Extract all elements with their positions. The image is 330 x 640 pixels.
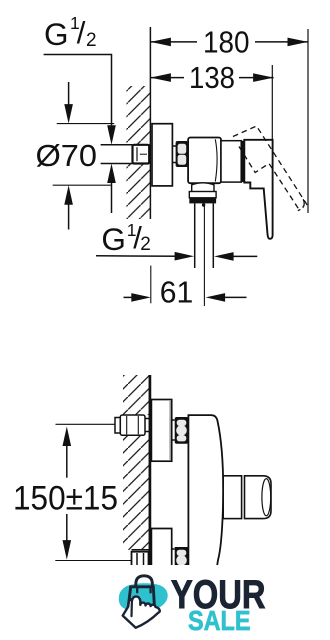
svg-text:G: G <box>44 16 69 52</box>
svg-text:61: 61 <box>160 276 194 310</box>
svg-text:/: / <box>77 15 86 50</box>
svg-text:2: 2 <box>140 234 151 255</box>
svg-text:2: 2 <box>86 30 97 51</box>
svg-text:138: 138 <box>189 61 235 95</box>
svg-text:G: G <box>101 221 126 257</box>
svg-text:150±15: 150±15 <box>13 479 118 517</box>
svg-text:180: 180 <box>203 25 250 59</box>
svg-text:SALE: SALE <box>188 605 251 636</box>
svg-text:Ø70: Ø70 <box>36 139 98 173</box>
